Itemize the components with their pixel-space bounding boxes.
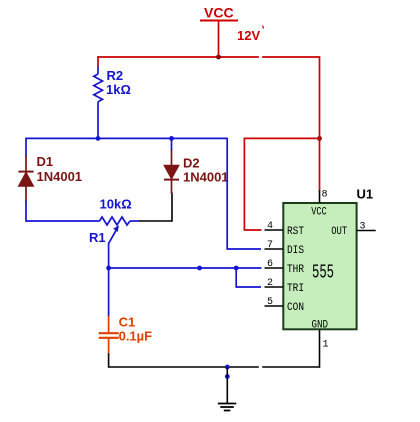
svg-text:6: 6: [267, 259, 273, 270]
wire left vertical to D1: [25, 138, 27, 157]
wire seam top rail: [259, 56, 262, 59]
junction VCC rail: [216, 55, 221, 60]
junction ground b: [225, 374, 230, 379]
svg-text:U1: U1: [357, 187, 374, 202]
pin 7 stub: [265, 248, 284, 250]
wire C1 bottom: [109, 354, 320, 368]
svg-text:R2: R2: [107, 68, 124, 83]
wire rail to R2: [97, 56, 99, 67]
ground: [218, 367, 237, 411]
svg-text:VCC: VCC: [204, 5, 234, 21]
junction wiper/THR: [106, 266, 111, 271]
svg-text:D1: D1: [37, 154, 54, 169]
wire R1 wiper down: [108, 243, 110, 268]
svg-text:8: 8: [322, 190, 328, 201]
wire RST net from VCC: [244, 138, 319, 230]
svg-text:1kΩ: 1kΩ: [106, 82, 131, 97]
wire TRI branch: [236, 268, 261, 287]
svg-text:THR: THR: [287, 264, 304, 276]
svg-text:VCC: VCC: [311, 207, 327, 219]
svg-text:CON: CON: [287, 302, 304, 314]
svg-text:D2: D2: [183, 156, 200, 171]
junction THR b: [234, 266, 239, 271]
diode D2: [164, 149, 179, 194]
wire top horizontal: [26, 137, 228, 139]
svg-text:OUT: OUT: [331, 226, 347, 238]
net label 12V: [237, 26, 264, 44]
pin 3 stub: [357, 230, 376, 232]
svg-text:12V: 12V: [237, 28, 260, 43]
junction R2 bottom: [96, 136, 101, 141]
wire VCC symbol stem: [218, 21, 220, 58]
pin 2 stub: [265, 286, 284, 288]
svg-text:0.1µF: 0.1µF: [119, 329, 153, 344]
wire THR net horizontal: [109, 267, 262, 269]
pin 5 stub: [265, 305, 284, 307]
resistor R2: [94, 67, 103, 114]
wire R1 right to D2: [139, 193, 172, 222]
pin 4 stub: [265, 229, 284, 231]
svg-text:4: 4: [267, 221, 273, 232]
svg-text:10kΩ: 10kΩ: [100, 197, 132, 212]
svg-text:C1: C1: [119, 315, 136, 330]
svg-text:R1: R1: [89, 230, 106, 245]
op-amp U1 555 timer body: [283, 203, 356, 329]
pin 8 stub: [319, 190, 321, 203]
svg-text:GND: GND: [312, 320, 329, 332]
wire VCC to pin 8: [319, 57, 321, 191]
wire DIS net vertical: [227, 138, 261, 249]
svg-text:7: 7: [267, 240, 273, 251]
svg-text:3: 3: [360, 222, 366, 233]
svg-text:5: 5: [267, 297, 273, 308]
svg-text:1N4001: 1N4001: [37, 169, 83, 184]
junction VCC/RST branch: [317, 136, 322, 141]
svg-text:1: 1: [323, 340, 329, 351]
svg-text:RST: RST: [287, 226, 304, 238]
junction THR a: [197, 266, 202, 271]
wire D2 top lead: [171, 138, 173, 150]
svg-text:DIS: DIS: [287, 245, 304, 257]
svg-text:555: 555: [312, 262, 334, 284]
svg-text:1N4001: 1N4001: [183, 170, 229, 185]
wire pin1 to ground rail: [319, 329, 321, 368]
wire D1 bottom: [26, 201, 100, 222]
potentiometer R1: [100, 217, 140, 243]
wire seam ground rail: [259, 366, 262, 369]
capacitor C1: [99, 267, 119, 355]
junction ground a: [225, 365, 230, 370]
power symbol VCC: [200, 5, 238, 21]
wire VCC rail: [97, 56, 320, 58]
junction D2 top: [169, 136, 174, 141]
svg-text:2: 2: [267, 278, 273, 289]
diode D1: [18, 156, 33, 202]
wire R2 bottom: [97, 113, 99, 138]
pin 6 stub: [265, 267, 284, 269]
svg-text:TRI: TRI: [287, 283, 304, 295]
